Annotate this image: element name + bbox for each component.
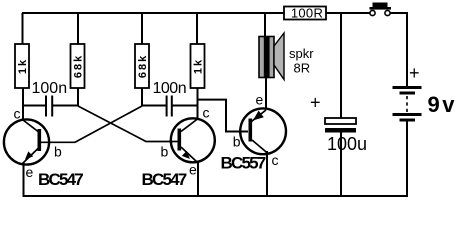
wire R3 top lead: [141, 13, 143, 44]
transistor Q3 BC557: [240, 108, 286, 154]
svg-text:c: c: [272, 152, 279, 168]
wire R2 top lead: [77, 13, 79, 44]
resistor R4 1k: [191, 44, 205, 88]
svg-text:BC547: BC547: [38, 170, 83, 189]
wire cross-coupling node C to Q1 base: [41, 106, 142, 142]
svg-text:e: e: [26, 164, 34, 180]
transistor Q2 BC547: [171, 118, 215, 162]
wire node A to C1: [22, 105, 46, 107]
wire battery positive lead: [406, 13, 408, 86]
wire Q3 collector to bottom rail: [266, 151, 268, 196]
svg-text:BC547: BC547: [142, 170, 187, 189]
svg-text:b: b: [161, 144, 169, 160]
wire R4 bottom to Q2 collector: [197, 88, 199, 119]
svg-text:100n: 100n: [153, 80, 187, 97]
svg-text:e: e: [256, 92, 264, 108]
resistor R3 68k: [135, 44, 149, 88]
wire C3 bottom lead: [340, 132, 342, 196]
wire speaker to Q3 emitter: [265, 77, 267, 109]
svg-text:BC557: BC557: [221, 153, 266, 172]
transistor Q1 BC547: [4, 119, 49, 164]
svg-text:b: b: [233, 134, 241, 150]
top V+ rail: [22, 12, 370, 14]
svg-text:8R: 8R: [294, 61, 311, 76]
wire R4 top lead: [196, 13, 198, 44]
wire R1 top lead: [22, 13, 24, 44]
svg-text:+: +: [310, 93, 321, 113]
wire Q2 collector to Q3 base: [198, 100, 249, 132]
push button S1: [370, 3, 392, 16]
wire C2 to node D: [172, 105, 197, 107]
ground 0V bottom rail: [23, 195, 409, 197]
svg-text:100n: 100n: [32, 80, 68, 97]
svg-text:spkr: spkr: [289, 46, 314, 61]
svg-text:1k: 1k: [193, 58, 205, 74]
capacitor C1 100n: [32, 80, 68, 117]
wire Q2 emitter to bottom rail: [197, 161, 199, 196]
wire C3 top lead: [340, 13, 342, 118]
battery B1 9v: [393, 63, 422, 122]
capacitor C3 100u electrolytic: [310, 93, 356, 133]
resistor R1 1k: [15, 44, 29, 88]
wire R3 bottom lead: [141, 87, 143, 106]
svg-text:e: e: [189, 162, 197, 178]
svg-text:c: c: [203, 105, 210, 121]
wire C1 to node B: [52, 105, 78, 107]
svg-text:68k: 68k: [137, 54, 149, 78]
svg-text:+: +: [409, 63, 420, 83]
wire node C to C2: [142, 105, 166, 107]
svg-text:100R: 100R: [291, 5, 323, 20]
svg-text:1k: 1k: [17, 58, 29, 74]
svg-text:9v: 9v: [428, 92, 457, 117]
resistor R2 68k: [71, 44, 85, 88]
wire top rail right segment after switch: [390, 12, 408, 14]
speaker LS1: [259, 33, 284, 80]
svg-text:c: c: [14, 106, 21, 122]
wire R2 bottom lead: [77, 87, 79, 106]
wire R1 bottom to Q1 collector: [22, 87, 24, 121]
wire speaker top lead: [264, 13, 266, 37]
capacitor C2 100n: [153, 80, 187, 117]
svg-text:b: b: [54, 144, 62, 160]
wire cross-coupling node B to Q2 base: [78, 106, 178, 142]
svg-text:100u: 100u: [327, 134, 367, 154]
wire Q1 emitter to bottom rail: [23, 163, 25, 196]
resistor R5 100R: [284, 5, 326, 20]
svg-text:68k: 68k: [73, 54, 85, 78]
wire battery negative lead: [406, 121, 408, 196]
